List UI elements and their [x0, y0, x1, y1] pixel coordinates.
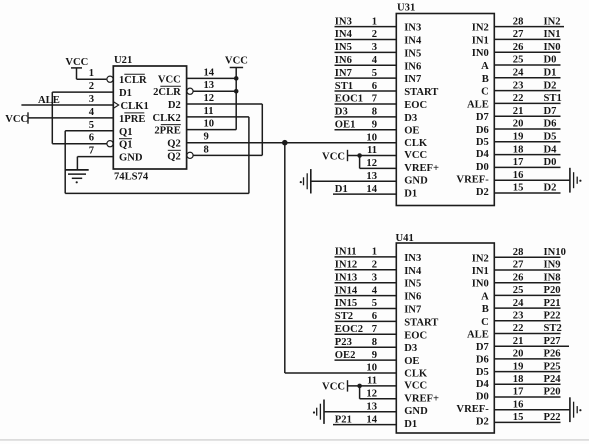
svg-text:IN8: IN8: [544, 272, 561, 283]
svg-text:IN1: IN1: [544, 29, 561, 40]
svg-text:19: 19: [513, 361, 524, 372]
svg-text:OE2: OE2: [335, 350, 356, 361]
svg-text:OE: OE: [404, 126, 419, 137]
svg-text:22: 22: [513, 323, 524, 334]
svg-text:5: 5: [89, 120, 94, 131]
svg-text:4: 4: [372, 285, 378, 296]
svg-text:25: 25: [513, 55, 524, 66]
svg-text:Q2: Q2: [167, 151, 181, 162]
svg-text:16: 16: [513, 170, 524, 181]
svg-text:20: 20: [513, 119, 524, 130]
svg-text:D1: D1: [119, 88, 132, 99]
svg-text:17: 17: [513, 387, 524, 398]
svg-text:2PRE: 2PRE: [154, 126, 180, 137]
svg-text:12: 12: [366, 158, 377, 169]
svg-text:GND: GND: [119, 153, 143, 164]
svg-text:D3: D3: [404, 113, 417, 124]
svg-text:ST2: ST2: [335, 311, 353, 322]
svg-text:OE: OE: [404, 356, 419, 367]
svg-text:3: 3: [372, 42, 377, 53]
svg-text:IN15: IN15: [335, 298, 357, 309]
svg-text:IN0: IN0: [544, 42, 561, 53]
svg-text:EOC2: EOC2: [335, 324, 363, 335]
svg-text:P21: P21: [544, 298, 561, 309]
svg-text:VCC: VCC: [5, 114, 28, 125]
svg-text:18: 18: [513, 144, 524, 155]
svg-text:P27: P27: [544, 336, 562, 347]
svg-text:1: 1: [89, 68, 94, 79]
svg-text:D2: D2: [476, 187, 489, 198]
svg-text:IN2: IN2: [472, 253, 489, 264]
svg-text:IN7: IN7: [335, 68, 353, 79]
svg-text:27: 27: [513, 29, 524, 40]
svg-text:P20: P20: [544, 285, 561, 296]
svg-text:CLK2: CLK2: [153, 113, 181, 124]
svg-text:VCC: VCC: [322, 382, 345, 393]
svg-text:EOC: EOC: [404, 100, 427, 111]
svg-text:17: 17: [513, 157, 524, 168]
svg-text:C: C: [481, 87, 489, 98]
svg-text:18: 18: [513, 374, 524, 385]
svg-text:IN5: IN5: [404, 48, 421, 59]
svg-text:1PRE: 1PRE: [119, 114, 145, 125]
svg-text:U31: U31: [397, 3, 415, 14]
svg-text:IN1: IN1: [472, 35, 489, 46]
svg-text:VCC: VCC: [225, 55, 248, 66]
svg-text:VCC: VCC: [322, 151, 345, 162]
svg-text:IN3: IN3: [404, 23, 421, 34]
svg-text:IN2: IN2: [472, 23, 489, 34]
svg-text:2: 2: [372, 260, 377, 271]
svg-text:VREF-: VREF-: [456, 174, 489, 185]
svg-text:IN3: IN3: [404, 253, 421, 264]
svg-text:D1: D1: [544, 68, 557, 79]
svg-text:IN7: IN7: [404, 305, 422, 316]
svg-text:21: 21: [513, 106, 524, 117]
svg-text:20: 20: [513, 349, 524, 360]
svg-text:START: START: [404, 317, 438, 328]
svg-text:D5: D5: [544, 132, 557, 143]
svg-text:B: B: [482, 74, 489, 85]
svg-text:1CLR: 1CLR: [119, 75, 147, 86]
svg-text:VREF-: VREF-: [456, 404, 489, 415]
svg-text:2: 2: [89, 81, 94, 92]
svg-text:IN3: IN3: [335, 16, 352, 27]
svg-text:OE1: OE1: [335, 119, 356, 130]
svg-text:9: 9: [204, 132, 209, 143]
svg-text:IN14: IN14: [335, 285, 358, 296]
svg-text:D0: D0: [476, 392, 489, 403]
svg-text:7: 7: [89, 146, 95, 157]
svg-text:28: 28: [513, 247, 524, 258]
svg-text:5: 5: [372, 298, 377, 309]
svg-text:14: 14: [366, 184, 377, 195]
svg-text:D7: D7: [544, 106, 558, 117]
svg-text:P26: P26: [544, 349, 561, 360]
svg-text:D2: D2: [544, 183, 557, 194]
svg-text:B: B: [482, 304, 489, 315]
svg-text:IN2: IN2: [544, 16, 561, 27]
svg-text:U21: U21: [114, 55, 132, 66]
svg-text:START: START: [404, 87, 438, 98]
svg-text:5: 5: [372, 68, 377, 79]
svg-text:19: 19: [513, 132, 524, 143]
svg-text:ST1: ST1: [544, 93, 562, 104]
svg-text:24: 24: [513, 298, 524, 309]
svg-text:13: 13: [366, 171, 377, 182]
svg-text:IN9: IN9: [544, 260, 561, 271]
svg-text:2CLR: 2CLR: [153, 87, 181, 98]
svg-text:P20: P20: [544, 387, 561, 398]
svg-text:3: 3: [89, 94, 94, 105]
svg-text:11: 11: [204, 106, 214, 117]
svg-text:IN7: IN7: [404, 74, 422, 85]
svg-text:A: A: [481, 291, 489, 302]
svg-text:P22: P22: [544, 311, 561, 322]
svg-text:26: 26: [513, 42, 524, 53]
svg-text:28: 28: [513, 16, 524, 27]
svg-text:IN12: IN12: [335, 260, 357, 271]
svg-text:D0: D0: [544, 157, 557, 168]
svg-text:D2: D2: [168, 100, 181, 111]
svg-text:VCC: VCC: [404, 150, 427, 161]
svg-text:D6: D6: [544, 119, 557, 130]
svg-text:U41: U41: [396, 233, 414, 244]
svg-text:Q2: Q2: [167, 139, 181, 150]
svg-text:IN0: IN0: [472, 48, 489, 59]
svg-text:26: 26: [513, 272, 524, 283]
svg-text:VCC: VCC: [404, 380, 427, 391]
svg-text:23: 23: [513, 80, 524, 91]
svg-text:2: 2: [372, 29, 377, 40]
svg-text:11: 11: [367, 145, 377, 156]
svg-text:7: 7: [372, 94, 378, 105]
svg-text:VCC: VCC: [65, 57, 88, 68]
svg-text:ALE: ALE: [467, 330, 489, 341]
svg-text:21: 21: [513, 336, 524, 347]
svg-text:8: 8: [372, 337, 377, 348]
svg-text:IN6: IN6: [335, 55, 352, 66]
svg-text:ST2: ST2: [544, 323, 562, 334]
svg-text:1: 1: [372, 247, 377, 258]
svg-text:VCC: VCC: [158, 74, 181, 85]
svg-text:ALE: ALE: [38, 95, 60, 106]
svg-text:C: C: [481, 317, 489, 328]
svg-text:VREF+: VREF+: [404, 163, 439, 174]
svg-text:IN4: IN4: [404, 266, 422, 277]
svg-text:D1: D1: [404, 419, 417, 430]
svg-text:1: 1: [372, 16, 377, 27]
svg-text:IN5: IN5: [404, 279, 421, 290]
svg-text:IN4: IN4: [335, 29, 353, 40]
svg-text:14: 14: [204, 67, 215, 78]
svg-text:Q1: Q1: [119, 127, 133, 138]
svg-text:10: 10: [204, 119, 215, 130]
svg-text:6: 6: [372, 81, 377, 92]
svg-text:VREF+: VREF+: [404, 393, 439, 404]
svg-text:GND: GND: [404, 175, 428, 186]
svg-text:D2: D2: [476, 417, 489, 428]
svg-text:24: 24: [513, 68, 524, 79]
svg-text:D2: D2: [544, 80, 557, 91]
svg-text:12: 12: [204, 93, 215, 104]
svg-text:6: 6: [372, 311, 377, 322]
svg-text:4: 4: [372, 55, 378, 66]
svg-text:A: A: [481, 61, 489, 72]
svg-text:D7: D7: [476, 342, 490, 353]
svg-text:11: 11: [367, 376, 377, 387]
svg-text:D4: D4: [476, 379, 490, 390]
svg-text:10: 10: [366, 132, 377, 143]
svg-text:27: 27: [513, 260, 524, 271]
svg-text:D0: D0: [544, 55, 557, 66]
svg-text:IN0: IN0: [472, 279, 489, 290]
svg-text:8: 8: [372, 107, 377, 118]
svg-text:D6: D6: [476, 355, 489, 366]
svg-text:D3: D3: [335, 107, 348, 118]
svg-text:ST1: ST1: [335, 81, 353, 92]
svg-text:16: 16: [513, 399, 524, 410]
svg-text:IN6: IN6: [404, 292, 421, 303]
svg-text:13: 13: [366, 401, 377, 412]
svg-text:23: 23: [513, 311, 524, 322]
svg-text:IN4: IN4: [404, 35, 422, 46]
svg-text:IN5: IN5: [335, 42, 352, 53]
svg-text:10: 10: [366, 363, 377, 374]
svg-text:ALE: ALE: [467, 99, 489, 110]
svg-text:GND: GND: [404, 406, 428, 417]
svg-text:P24: P24: [544, 374, 562, 385]
svg-text:EOC: EOC: [404, 330, 427, 341]
svg-text:9: 9: [372, 119, 377, 130]
svg-text:6: 6: [89, 133, 94, 144]
svg-text:IN6: IN6: [404, 61, 421, 72]
svg-text:P23: P23: [335, 337, 352, 348]
svg-text:D1: D1: [404, 188, 417, 199]
svg-text:9: 9: [372, 350, 377, 361]
svg-text:74LS74: 74LS74: [114, 172, 149, 183]
svg-text:D1: D1: [335, 184, 348, 195]
svg-text:CLK: CLK: [404, 368, 428, 379]
svg-text:13: 13: [204, 80, 215, 91]
svg-text:D4: D4: [544, 144, 558, 155]
svg-text:25: 25: [513, 285, 524, 296]
svg-text:P22: P22: [544, 412, 561, 423]
svg-text:EOC1: EOC1: [335, 94, 363, 105]
svg-text:CLK1: CLK1: [121, 101, 149, 112]
svg-text:3: 3: [372, 272, 377, 283]
svg-text:IN11: IN11: [335, 247, 357, 258]
svg-text:P21: P21: [335, 414, 352, 425]
svg-text:D7: D7: [476, 112, 490, 123]
svg-text:15: 15: [513, 183, 524, 194]
svg-text:IN13: IN13: [335, 272, 357, 283]
svg-text:Q1: Q1: [119, 140, 133, 151]
svg-text:D4: D4: [476, 149, 490, 160]
svg-text:22: 22: [513, 93, 524, 104]
svg-text:D5: D5: [476, 367, 489, 378]
svg-text:IN10: IN10: [544, 247, 566, 258]
svg-text:D0: D0: [476, 162, 489, 173]
svg-text:D3: D3: [404, 343, 417, 354]
svg-text:P25: P25: [544, 361, 561, 372]
svg-text:8: 8: [204, 144, 209, 155]
svg-text:7: 7: [372, 324, 378, 335]
svg-text:15: 15: [513, 412, 524, 423]
svg-text:CLK: CLK: [404, 138, 428, 149]
svg-text:4: 4: [89, 107, 95, 118]
svg-text:D5: D5: [476, 137, 489, 148]
svg-text:14: 14: [366, 414, 377, 425]
svg-text:12: 12: [366, 389, 377, 400]
svg-text:D6: D6: [476, 125, 489, 136]
svg-text:IN1: IN1: [472, 266, 489, 277]
